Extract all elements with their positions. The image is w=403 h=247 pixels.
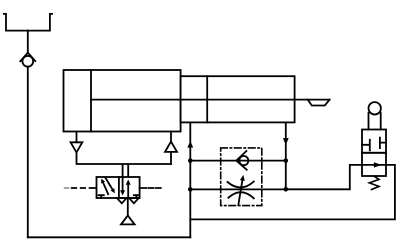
blocked port mark (right box bottom-right) xyxy=(134,195,139,198)
check valve V4 (oil make-up) xyxy=(20,53,35,67)
throttle valve 2V2 (adjustable) xyxy=(228,175,254,205)
oil damping cylinder 2A barrel xyxy=(181,76,295,122)
blocked ports symbol (top box) xyxy=(362,138,386,151)
flow arrow (down) on right oil line xyxy=(283,138,289,145)
oil reservoir T1 xyxy=(4,14,52,31)
wire: branch to limit valve inlet xyxy=(286,165,362,189)
wire: check-valve branch xyxy=(190,160,285,162)
piston rod (common) xyxy=(91,99,330,101)
junction dot C xyxy=(284,158,289,163)
wire: left port line to valve xyxy=(77,152,172,177)
pilot line stub (right, dashed) xyxy=(140,187,161,189)
flow arrow (up) on left oil line xyxy=(187,141,193,148)
wire: make-up line left vertical xyxy=(27,67,29,238)
directional valve straight-position arrows (right box) xyxy=(120,177,131,198)
pilot line stub (left, dashed) xyxy=(72,187,97,189)
air cylinder 1A barrel xyxy=(64,70,181,132)
return spring xyxy=(369,176,379,190)
wire: air cylinder left port down xyxy=(76,132,78,143)
wire: bottom make-up line xyxy=(28,236,191,238)
exhaust triangle R (left) xyxy=(117,198,127,203)
wire: oil cylinder left port vertical line xyxy=(189,122,191,237)
cam on piston rod end xyxy=(308,100,330,106)
junction dot D xyxy=(284,187,289,192)
limit valve plunger stem xyxy=(369,113,381,130)
directional valve crossed-position arrows (left box) xyxy=(101,177,115,194)
air cylinder piston xyxy=(90,70,92,132)
directional valve 1V body xyxy=(97,177,140,198)
blocked port mark (left box bottom-left) xyxy=(99,195,104,198)
oil cylinder piston xyxy=(206,76,208,122)
supply source triangle xyxy=(121,216,135,225)
flow path arrow (bottom box) xyxy=(362,162,386,167)
check valve 2V1 (bypass) xyxy=(236,151,248,170)
wire: supply line P xyxy=(127,198,129,216)
junction dot A xyxy=(188,158,193,163)
exhaust triangle S (right) xyxy=(129,198,139,203)
limit valve 2S roller xyxy=(369,102,381,114)
flow control unit 2V enclosure (dash-dot) xyxy=(221,148,262,206)
wire: right port line to valve xyxy=(128,152,171,177)
limit valve body (two boxes) xyxy=(362,130,386,177)
wire: air cylinder right port down xyxy=(170,132,172,142)
wire: reservoir outlet down to check valve xyxy=(27,31,29,54)
wire: limit valve outlet to return xyxy=(190,165,395,220)
flow indicator triangle (up) right port xyxy=(165,142,177,152)
wire: throttle branch xyxy=(190,188,285,190)
flow indicator triangle (down) left port xyxy=(71,142,83,152)
junction dot B xyxy=(188,187,193,192)
wire: oil cylinder right port vertical line xyxy=(285,122,287,189)
